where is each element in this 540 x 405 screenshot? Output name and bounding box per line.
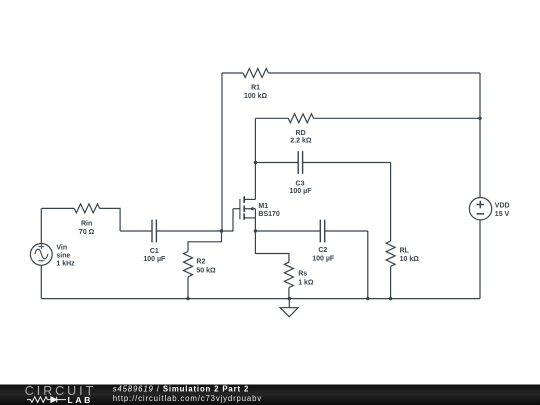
footer bar (0, 385, 540, 405)
svg-text:50 kΩ: 50 kΩ (196, 267, 216, 274)
svg-text:15 V: 15 V (495, 211, 510, 218)
voltage source Vin minus (39, 260, 45, 262)
svg-text:LAB: LAB (68, 395, 93, 405)
node gate junction dot (220, 229, 223, 232)
wire drain vertical (254, 118, 256, 199)
voltage source VDD circle (469, 198, 491, 220)
wire source row to C2 (255, 230, 320, 232)
node source junction dot (254, 229, 257, 232)
svg-text:100 µF: 100 µF (312, 255, 335, 262)
wire Vin top vertical (40, 208, 42, 243)
svg-text:100 kΩ: 100 kΩ (244, 93, 268, 100)
ground stub (288, 299, 290, 308)
node RD right rail junction dot (478, 117, 481, 120)
transistor Q M1 gate lead (233, 208, 240, 210)
wire R1 left vertical to gate node (221, 73, 223, 231)
voltage source Vin sine (35, 249, 48, 259)
wire right rail upper (479, 73, 481, 198)
svg-text:C1: C1 (150, 248, 159, 255)
transistor M1 gate bar (239, 199, 241, 219)
wire R2 branch (188, 231, 222, 252)
svg-text:M1: M1 (258, 203, 268, 210)
wire Rin right lead (100, 208, 121, 231)
svg-text:R1: R1 (251, 84, 260, 91)
ground symbol (280, 308, 298, 317)
svg-text:Vin: Vin (56, 244, 67, 251)
svg-text:http://circuitlab.com/c73vjydr: http://circuitlab.com/c73vjydrpuabv (113, 394, 262, 403)
resistor R1 (243, 69, 268, 78)
transistor M1 channel bars (243, 196, 245, 220)
svg-text:100 µF: 100 µF (143, 256, 166, 263)
svg-text:10 kΩ: 10 kΩ (400, 256, 420, 263)
wire R2 bottom lead (187, 277, 189, 299)
svg-text:Rin: Rin (81, 221, 92, 228)
resistor RL (386, 241, 395, 266)
logo resistor-diode glyph (27, 397, 66, 403)
wire C3 right lead (303, 162, 391, 164)
svg-text:1 kΩ: 1 kΩ (298, 279, 314, 286)
wire RL top lead (390, 163, 392, 242)
wire RD right lead (314, 117, 480, 119)
voltage source VDD minus (477, 213, 485, 215)
voltage source Vin circle (30, 244, 52, 266)
wire C3 left lead (255, 162, 298, 164)
capacitor C1 (152, 220, 156, 243)
resistor R2 (184, 252, 193, 277)
wire top rail left lead (222, 72, 243, 74)
svg-text:C3: C3 (296, 180, 305, 187)
svg-text:Rs: Rs (298, 271, 307, 278)
svg-text:BS170: BS170 (258, 211, 280, 218)
svg-text:70 Ω: 70 Ω (79, 229, 95, 236)
wire Rs branch (255, 231, 289, 262)
capacitor C3 (298, 151, 302, 174)
svg-text:s4589619 / Simulation 2 Part 2: s4589619 / Simulation 2 Part 2 (113, 385, 249, 394)
wire Rs bottom lead (288, 288, 290, 299)
svg-text:1 kHz: 1 kHz (56, 260, 75, 267)
svg-text:C2: C2 (318, 247, 327, 254)
svg-text:RL: RL (400, 248, 410, 255)
voltage source Vin plus (39, 244, 45, 249)
node C2 bottom junction dot (366, 297, 369, 300)
transistor M1 body lead (244, 208, 255, 210)
wire source vertical (254, 209, 256, 231)
wire top rail right (268, 72, 480, 74)
transistor M1 drain lead (244, 198, 255, 200)
transistor M1 body arrow (249, 207, 253, 211)
svg-text:RD: RD (296, 130, 306, 137)
node ground junction dot (288, 297, 291, 300)
wire right rail lower (479, 220, 481, 299)
wire C2 branch down (367, 231, 369, 299)
svg-text:R2: R2 (196, 259, 205, 266)
wire Vin bottom vertical (40, 265, 42, 298)
wire Rin left lead (41, 207, 74, 209)
transistor M1 source lead (244, 217, 255, 219)
svg-text:2.2 kΩ: 2.2 kΩ (290, 138, 312, 145)
wire RL bottom lead (390, 266, 392, 298)
resistor Rs (284, 262, 293, 287)
node R2 bottom junction dot (186, 297, 189, 300)
svg-text:100 µF: 100 µF (290, 188, 313, 195)
resistor RD (288, 114, 313, 123)
wire C1 left lead (120, 230, 152, 232)
resistor Rin (74, 204, 99, 213)
node RL bottom junction dot (389, 297, 392, 300)
svg-text:sine: sine (56, 252, 70, 259)
wire C1 right to gate jog (156, 209, 233, 231)
capacitor C2 (320, 220, 324, 243)
voltage source VDD plus (477, 201, 485, 209)
wire bottom rail (41, 298, 480, 300)
node drain-C3 junction dot (254, 161, 257, 164)
svg-text:VDD: VDD (495, 203, 510, 210)
wire C2 right lead (325, 230, 368, 232)
wire RD left lead (255, 117, 288, 119)
